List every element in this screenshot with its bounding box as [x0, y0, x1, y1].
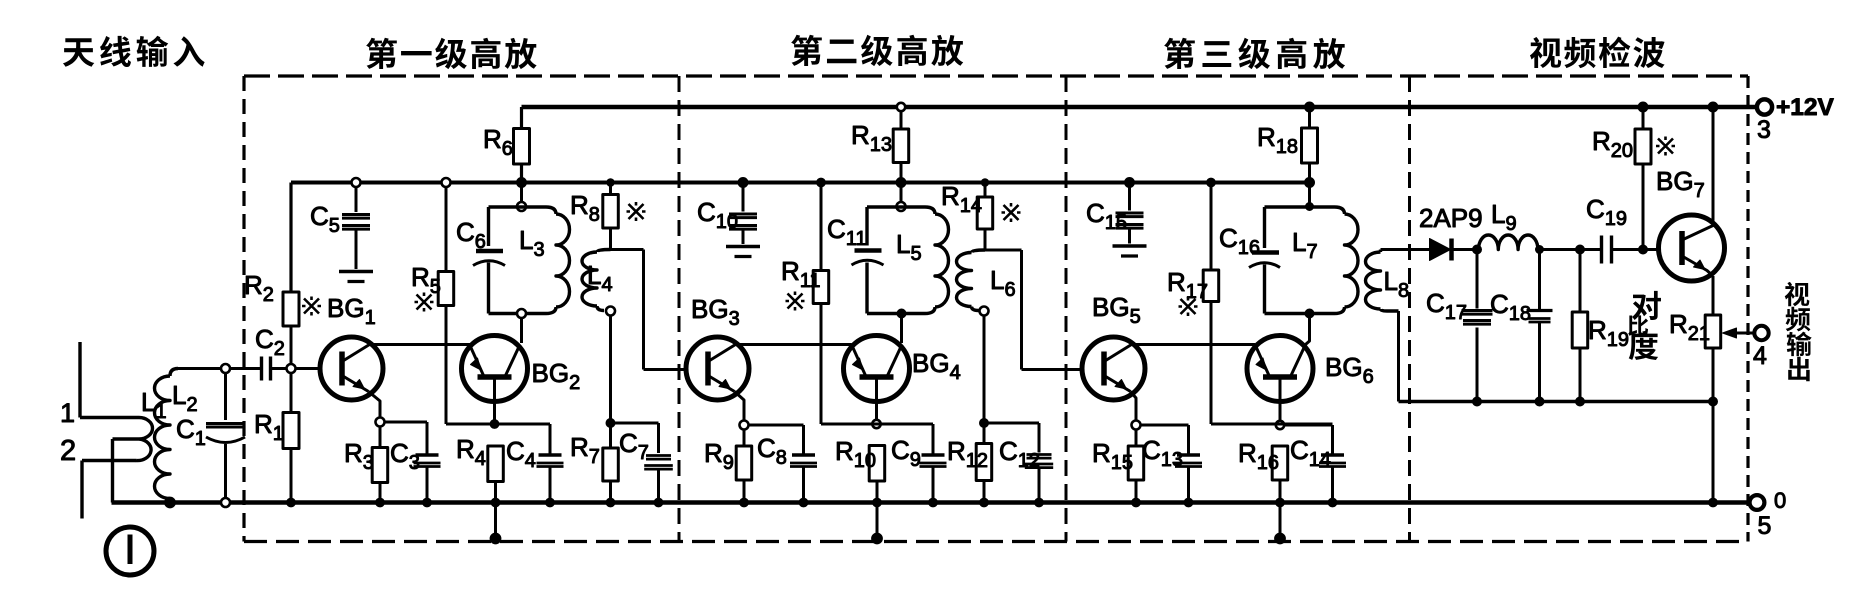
- svg-text:BG5: BG5: [1092, 292, 1141, 328]
- node BG3 emitter: [740, 421, 749, 430]
- inductor L2: [155, 369, 198, 508]
- node diode cathode: [1473, 245, 1482, 254]
- wire bus to tank 3: [1308, 183, 1311, 207]
- divider stage1/stage2: [678, 76, 681, 542]
- capacitor C7: [615, 423, 673, 507]
- wire BG7 emitter to R21: [1712, 276, 1715, 315]
- resistor R19: [1572, 250, 1629, 407]
- svg-text:R12: R12: [947, 436, 988, 472]
- svg-text:0: 0: [1774, 488, 1786, 513]
- tank 2 loop: [867, 207, 935, 314]
- label video output: [1785, 282, 1812, 381]
- capacitor C19: [1586, 194, 1639, 264]
- node tank1 bottom: [517, 309, 526, 318]
- title antenna input: [63, 36, 205, 67]
- wire L8 to detector common: [1397, 311, 1400, 402]
- resistor R16: [1238, 438, 1288, 507]
- svg-text:R10: R10: [835, 436, 876, 472]
- refmark R14: [1002, 203, 1021, 222]
- wire base bias node stage3: [1211, 423, 1333, 426]
- ground symbol C5: [339, 272, 373, 282]
- svg-text:C11: C11: [827, 214, 867, 250]
- node BG7 base: [1639, 245, 1648, 254]
- capacitor C9: [891, 424, 947, 507]
- node BG5 emitter: [1132, 421, 1141, 430]
- resistor R5: [411, 178, 454, 424]
- resistor R1: [254, 373, 299, 507]
- resistor R20: [1592, 102, 1651, 250]
- capacitor C5: [310, 178, 370, 269]
- resistor R2: [244, 183, 299, 365]
- wire bus to tank 1: [520, 187, 523, 202]
- node C18 top: [1536, 246, 1544, 254]
- wire BG1 collector to BG2 emitter: [370, 343, 471, 346]
- node L6 bottom: [980, 419, 989, 428]
- wire BG7 base: [1643, 248, 1659, 251]
- svg-text:C15: C15: [1086, 198, 1127, 234]
- resistor R18: [1257, 102, 1318, 188]
- label BG5: [1092, 292, 1141, 328]
- svg-text:R6: R6: [483, 124, 513, 160]
- svg-text:C2: C2: [255, 324, 285, 360]
- wire BG4 base: [875, 378, 878, 421]
- resistor R3: [344, 427, 388, 507]
- label BG4: [912, 348, 961, 384]
- inductor L3: [519, 214, 570, 307]
- wire BG3 emitter: [735, 392, 745, 421]
- coupling loop L1: [113, 387, 167, 461]
- resistor R15: [1092, 430, 1144, 507]
- svg-text:4: 4: [1753, 342, 1767, 370]
- trimmer capacitor C11: [827, 214, 884, 265]
- label contrast: [1628, 291, 1661, 360]
- svg-text:L9: L9: [1491, 199, 1517, 235]
- chassis stub stage2: [876, 503, 879, 538]
- svg-text:R4: R4: [456, 434, 486, 470]
- +12V supply rail: [522, 105, 1757, 110]
- resistor R13: [851, 103, 909, 188]
- svg-text:R3: R3: [344, 438, 374, 474]
- svg-text:R8: R8: [570, 190, 600, 226]
- label BG7: [1656, 166, 1705, 202]
- tank 1 loop: [489, 207, 557, 314]
- wire BG7 collector to rail: [1712, 107, 1715, 226]
- capacitor C12: [989, 423, 1054, 507]
- antenna plug symbol: [106, 527, 154, 575]
- resistor R9: [704, 430, 752, 507]
- svg-text:C10: C10: [697, 197, 738, 233]
- svg-text:5: 5: [1758, 512, 1772, 540]
- wire L4 to R7 node: [609, 316, 612, 419]
- node BG1 base: [287, 364, 296, 373]
- capacitor C13: [1141, 425, 1203, 507]
- trimmer capacitor C6: [456, 217, 505, 266]
- label BG3: [691, 294, 740, 330]
- svg-text:C6: C6: [456, 217, 486, 253]
- resistor R6: [483, 107, 530, 188]
- refmark R20: [1656, 137, 1675, 156]
- transistor BG7: [1659, 215, 1725, 281]
- svg-text:R14: R14: [941, 181, 982, 217]
- divider stage3/detector: [1408, 76, 1411, 542]
- svg-text:R16: R16: [1238, 438, 1279, 474]
- wire BG5 emitter: [1131, 392, 1137, 421]
- title video detector: [1530, 37, 1665, 69]
- ground symbol C10: [726, 247, 760, 257]
- wire L1 centre tap to ground: [111, 439, 114, 503]
- wire BG6 collector to tank3: [1306, 318, 1310, 345]
- svg-text:C9: C9: [891, 435, 921, 471]
- chassis stub stage3: [1279, 503, 1282, 538]
- svg-text:C4: C4: [506, 436, 536, 472]
- svg-text:R7: R7: [570, 432, 600, 468]
- capacitor C10: [697, 178, 757, 245]
- capacitor C8: [749, 425, 818, 507]
- resistor R14: [941, 179, 993, 250]
- trimmer capacitor C16: [1219, 223, 1280, 268]
- svg-text:R5: R5: [411, 262, 441, 298]
- wire L6 to R12 node: [983, 316, 986, 419]
- svg-text:C3: C3: [390, 438, 420, 474]
- capacitor C15: [1086, 178, 1144, 244]
- node BG1 emitter: [376, 418, 385, 427]
- transistor BG1: [320, 337, 383, 400]
- capacitor C14: [1285, 425, 1347, 507]
- svg-text:L5: L5: [896, 229, 922, 265]
- inductor L5: [896, 214, 949, 307]
- svg-text:L2: L2: [172, 380, 198, 416]
- svg-text:C5: C5: [310, 201, 340, 237]
- inductor L4: [582, 250, 615, 316]
- inductor L7: [1292, 214, 1358, 307]
- wire base bias node stage1: [446, 423, 550, 426]
- svg-text:+12V: +12V: [1776, 94, 1835, 121]
- transistor BG4: [844, 336, 910, 402]
- wire BG1 emitter: [369, 392, 381, 419]
- wire BG2 base: [493, 378, 496, 421]
- potentiometer R21: [1669, 309, 1721, 406]
- svg-text:R2: R2: [244, 270, 274, 306]
- label BG1: [327, 293, 376, 329]
- refmark R11: [786, 292, 805, 311]
- wire stage2 to stage3 coupling: [985, 250, 1082, 370]
- svg-text:C17: C17: [1426, 288, 1467, 324]
- node R19 top: [1576, 245, 1585, 254]
- inductor L8: [1366, 250, 1410, 312]
- capacitor C2: [255, 324, 287, 381]
- svg-text:R11: R11: [781, 256, 821, 292]
- capacitor C4: [506, 424, 564, 507]
- diode 2AP9: [1419, 203, 1483, 261]
- terminal 4 wiper arrow: [1723, 326, 1769, 370]
- label BG6: [1325, 352, 1374, 388]
- wire R21 to ground rail: [1712, 402, 1715, 503]
- resistor R17: [1167, 178, 1219, 424]
- wire stage1 to stage2 coupling: [611, 250, 687, 370]
- wire BG6 base: [1279, 378, 1282, 421]
- label BG2: [532, 358, 581, 394]
- svg-text:BG2: BG2: [532, 358, 581, 394]
- svg-text:R19: R19: [1588, 315, 1629, 351]
- ground symbol C15: [1113, 246, 1147, 256]
- wire base bias node stage2: [821, 423, 933, 426]
- inductor L6: [957, 250, 1016, 316]
- svg-text:2AP9: 2AP9: [1419, 203, 1483, 233]
- transistor BG5: [1082, 337, 1145, 400]
- svg-text:BG7: BG7: [1656, 166, 1705, 202]
- svg-text:1: 1: [60, 398, 75, 428]
- svg-text:3: 3: [1757, 116, 1771, 144]
- node L4 bottom: [606, 419, 615, 428]
- tank 3 loop: [1265, 207, 1345, 314]
- svg-text:R1: R1: [254, 409, 284, 445]
- wire bus to tank 2: [900, 187, 903, 202]
- svg-text:C1: C1: [176, 414, 206, 450]
- svg-text:L8: L8: [1384, 266, 1410, 302]
- svg-text:L6: L6: [990, 265, 1016, 301]
- svg-text:L3: L3: [519, 225, 545, 261]
- svg-text:R13: R13: [851, 120, 892, 156]
- wire BG4 collector to tank2: [900, 318, 903, 343]
- wire BG5 collector to BG6 emitter: [1132, 343, 1256, 346]
- svg-text:2: 2: [60, 435, 76, 467]
- title stage 3 RF amp: [1164, 38, 1345, 69]
- svg-text:L7: L7: [1292, 227, 1318, 263]
- capacitor C17: [1426, 250, 1493, 407]
- refmark R17: [1179, 297, 1198, 316]
- resistor R8: [570, 179, 618, 250]
- svg-text:BG4: BG4: [912, 348, 961, 384]
- svg-text:R18: R18: [1257, 122, 1298, 158]
- svg-text:BG3: BG3: [691, 294, 740, 330]
- capacitor C3: [385, 422, 441, 507]
- screen bus: [291, 181, 1310, 185]
- svg-text:L4: L4: [587, 260, 613, 296]
- divider stage2/stage3: [1065, 76, 1068, 542]
- svg-text:C16: C16: [1219, 223, 1260, 259]
- enclosure dashed box: [244, 76, 1748, 542]
- svg-text:C7: C7: [619, 428, 649, 464]
- wire base BG1: [296, 367, 321, 370]
- wire L9 to C19: [1538, 248, 1601, 251]
- node tank3 bottom: [1305, 309, 1314, 318]
- transistor BG6: [1247, 336, 1313, 402]
- transistor BG2: [462, 336, 528, 402]
- svg-text:C19: C19: [1586, 194, 1627, 230]
- resistor R12: [947, 423, 992, 507]
- inductor L9: [1479, 199, 1538, 250]
- chassis stub stage1: [494, 503, 497, 538]
- refmark R8: [627, 202, 646, 221]
- resistor R4: [456, 434, 503, 507]
- svg-text:BG1: BG1: [327, 293, 376, 329]
- title stage 1 RF amp: [366, 38, 536, 69]
- svg-text:BG6: BG6: [1325, 352, 1374, 388]
- resistor R10: [835, 436, 885, 507]
- trimmer capacitor C1: [176, 364, 245, 507]
- capacitor C18: [1490, 250, 1553, 407]
- resistor R7: [570, 423, 618, 507]
- ground rail: [112, 500, 1750, 505]
- wire BG3 collector to BG4 emitter: [736, 343, 852, 346]
- wire BG2 collector to tank1: [520, 318, 523, 343]
- svg-text:R9: R9: [704, 438, 734, 474]
- node tank2 bottom: [897, 309, 906, 318]
- svg-text:C12: C12: [999, 436, 1040, 472]
- svg-text:C18: C18: [1490, 289, 1531, 325]
- wire antenna to C2: [178, 367, 260, 370]
- title stage 2 RF amp: [791, 35, 963, 66]
- wire L8 to diode: [1381, 248, 1430, 251]
- terminal 2 lead: [82, 461, 136, 519]
- svg-text:R15: R15: [1092, 438, 1133, 474]
- refmark R5: [415, 293, 434, 312]
- terminal 0/5: [1750, 488, 1787, 540]
- detector common rail: [1399, 400, 1714, 403]
- svg-text:C8: C8: [757, 433, 787, 469]
- terminal 1 lead: [80, 342, 139, 418]
- svg-text:R20: R20: [1592, 126, 1633, 162]
- svg-text:C13: C13: [1142, 435, 1183, 471]
- terminal 3 (+12V): [1757, 94, 1835, 144]
- resistor R11: [781, 178, 829, 424]
- transistor BG3: [686, 337, 749, 400]
- svg-text:C14: C14: [1290, 435, 1331, 471]
- refmark R2: [302, 297, 321, 316]
